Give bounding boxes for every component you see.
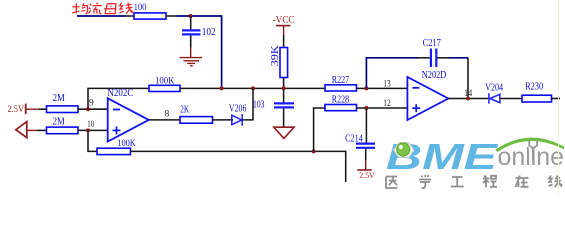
faint page edge: [558, 0, 560, 194]
capacitor C214: [356, 144, 375, 148]
wire: lead to ground (dark red): [190, 48, 192, 58]
svg-text:N202D: N202D: [422, 70, 447, 81]
resistor 2M (lower): [47, 127, 79, 134]
junction 39K tap: [282, 86, 286, 90]
程: [483, 176, 497, 188]
svg-text:2M: 2M: [53, 93, 65, 104]
wire: R227 to pin 13 (black): [357, 87, 408, 89]
N202D plus: [412, 104, 420, 112]
wire: 39K bottom through junction to C103 (black): [283, 78, 285, 103]
wire: C103 bottom lead (black): [283, 109, 285, 128]
svg-text:100: 100: [134, 3, 147, 13]
wire: C217 left pin (black): [418, 57, 430, 59]
N202C plus: [113, 126, 121, 134]
resistor R227: [325, 85, 357, 91]
wire: V206 up to main net (black): [242, 88, 253, 120]
op-amp N202D: [407, 77, 448, 120]
diode V206: [232, 114, 242, 126]
均: [72, 3, 79, 13]
logo BME: [386, 136, 498, 177]
母: [104, 4, 116, 14]
wire: C102 bottom lead (black): [190, 36, 192, 48]
power port 2.5V (left): [8, 104, 40, 114]
svg-text:V206: V206: [229, 104, 247, 115]
junction pin 9: [86, 107, 90, 111]
svg-text:12: 12: [383, 99, 391, 109]
在: [516, 176, 529, 188]
ground (earth) symbol: [180, 58, 203, 66]
wire: main net 100K to R227 (black): [180, 87, 325, 89]
svg-text:2.5V: 2.5V: [359, 170, 375, 180]
svg-text:10: 10: [87, 120, 94, 130]
wire: -VCC to 39K (black): [283, 35, 285, 48]
resistor 2M (upper): [47, 106, 79, 113]
resistor 100: [134, 13, 166, 19]
power port 2.5V (bottom): [357, 160, 375, 180]
resistor R230: [522, 95, 552, 102]
线: [119, 3, 123, 13]
junction at R100/C102 tap: [189, 14, 193, 18]
op-amp N202C: [108, 98, 149, 141]
capacitor 102: [182, 30, 201, 34]
wire: R228 to pin 12 (black): [357, 107, 408, 109]
wire: feedback from pin10 down to 100K bottom (black): [88, 130, 97, 151]
wire: output pin 14 (black): [448, 98, 488, 100]
wire: tap up to R228 (black): [314, 108, 325, 151]
logo wrench (i): [529, 141, 538, 161]
capacitor C217: [431, 49, 436, 68]
wire: R100 right pin (black): [166, 15, 177, 17]
wire: top bus under net label (navy): [77, 15, 126, 17]
svg-text:13: 13: [383, 79, 391, 89]
resistor 39K: [280, 48, 288, 78]
power ground triangle: [274, 127, 294, 138]
医: [386, 177, 398, 189]
N202C minus: [113, 109, 120, 111]
svg-text:R230: R230: [525, 81, 543, 92]
junction output: [466, 97, 470, 101]
wire: C217 branch left vertical (navy): [366, 58, 418, 89]
junction C217 tap: [364, 86, 368, 90]
线: [549, 176, 562, 188]
svg-text:8: 8: [165, 110, 170, 120]
logo CJK row 医学工程在线 (gray, drawn strokes): [386, 175, 562, 188]
wire: R230 right (black): [552, 98, 561, 100]
wire: port to 2M#2 (dark red then black): [27, 129, 37, 131]
resistor 100K (bottom): [97, 148, 131, 154]
wire: output pin 8 (black): [149, 119, 180, 121]
power port -VCC: [273, 15, 295, 35]
svg-text:39K: 39K: [270, 44, 281, 66]
input port triangle: [16, 122, 27, 138]
wire: C214 bottom lead (black): [365, 149, 367, 161]
svg-text:103: 103: [253, 99, 265, 110]
wire: into 2M#1 (black): [39, 108, 47, 110]
wire: C217 right pin (black): [437, 57, 449, 59]
流: [88, 4, 91, 14]
net label 均流母线 (red CJK, drawn strokes): [72, 3, 133, 15]
logo green ball: [397, 143, 410, 156]
svg-text:102: 102: [202, 27, 216, 38]
svg-text:14: 14: [464, 89, 472, 99]
resistor 2K: [180, 117, 213, 124]
logo swoosh: [495, 138, 564, 152]
学: [419, 175, 431, 188]
svg-text:N202C: N202C: [107, 88, 133, 99]
wire: pin lead into R100 (black): [126, 15, 135, 17]
resistor R228: [325, 105, 357, 111]
wire: 2K to V206 (black): [213, 119, 234, 121]
junction pin 10: [86, 128, 90, 132]
svg-text:2.5V: 2.5V: [8, 104, 25, 114]
svg-text:2M: 2M: [53, 117, 65, 128]
wire: C217 to output (navy then black down): [449, 57, 468, 59]
logo hexagon nut: [394, 143, 414, 158]
resistor 100K (top): [149, 85, 180, 91]
junction bottom tap: [312, 149, 316, 153]
junction C214 tap: [364, 106, 368, 110]
svg-text:C217: C217: [423, 38, 441, 49]
svg-text:2K: 2K: [180, 105, 190, 116]
wire: C102 top lead (black): [190, 16, 192, 30]
wire: C214 branch down (black): [365, 108, 367, 143]
工: [451, 177, 464, 187]
diode V204: [489, 93, 500, 103]
svg-text:V204: V204: [485, 83, 503, 94]
svg-text:-VCC: -VCC: [273, 15, 295, 26]
junction top-bus tap: [220, 86, 224, 90]
N202D minus: [412, 87, 419, 89]
wire: 2M#1 to pin 9 (black): [78, 108, 108, 110]
wire: top bus to right corner (navy): [177, 16, 222, 88]
wire: feedback up from pin9 to 100K row (black): [88, 88, 149, 109]
junction V206 tap: [251, 86, 255, 90]
svg-text:9: 9: [89, 99, 94, 109]
wire: V204 to R230 (black): [500, 98, 522, 100]
capacitor 103: [274, 103, 294, 107]
wire: 2M#2 to pin 10 (black): [78, 129, 108, 131]
wire: bottom feedback run (black): [131, 151, 346, 182]
